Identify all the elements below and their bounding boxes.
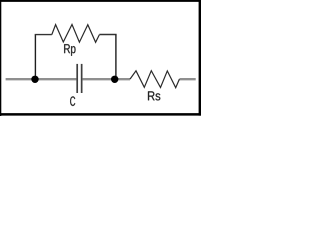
wire top left horizontal <box>35 34 52 36</box>
wire capacitor to resistor Rs <box>83 78 130 80</box>
wire Rs to right terminal <box>179 78 195 80</box>
label Rs <box>148 91 160 100</box>
resistor Rs <box>130 71 179 88</box>
label Rp <box>64 44 75 56</box>
wire right vertical branch <box>115 35 117 80</box>
capacitor C right plate <box>81 64 83 93</box>
node junction left <box>31 76 38 83</box>
capacitor C left plate <box>76 64 78 93</box>
wire left vertical branch <box>34 35 36 79</box>
wire left terminal to capacitor <box>6 78 77 80</box>
wire top right horizontal <box>99 34 116 36</box>
resistor Rp <box>52 25 100 43</box>
label C <box>70 96 75 106</box>
node junction right <box>111 76 118 83</box>
